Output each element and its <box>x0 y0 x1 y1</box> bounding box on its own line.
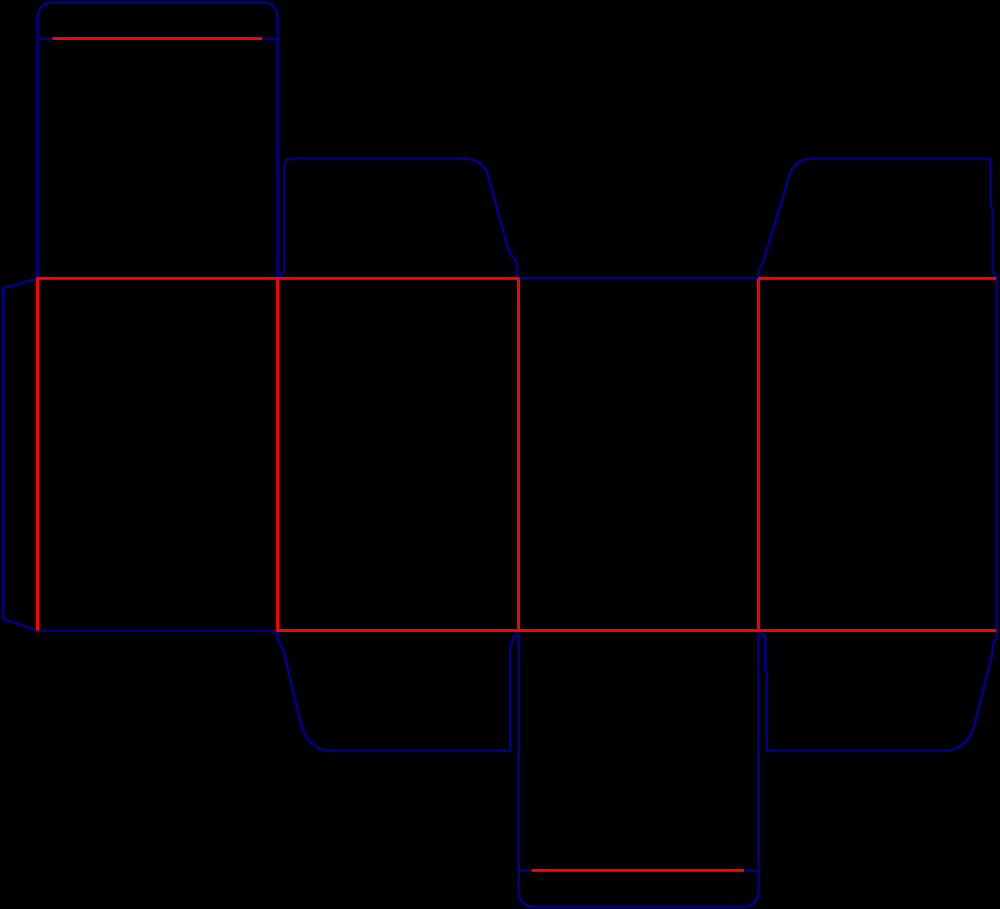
fold crease panel P3 / P4 (red vertical) <box>757 278 760 630</box>
cut line bottom of panel P1 <box>38 629 278 632</box>
bottom crease of panels P2 P3 P4 (red) <box>276 629 996 632</box>
lid cut nick left of tuck crease <box>39 37 53 40</box>
bottom tuck crease (red) in bottom flap <box>532 869 744 872</box>
dust flap above panel P2 (cut outline) <box>278 158 517 277</box>
dust flap below panel P4 (cut outline) <box>759 631 997 750</box>
bottom flap cut nick right of its crease <box>744 869 757 872</box>
bottom flap cut nick left of its crease <box>520 869 532 872</box>
dust flap below panel P2 (cut outline) <box>278 631 519 750</box>
dust flap above panel P4 (cut outline) <box>758 158 996 277</box>
cut line top of panel P3 <box>517 277 759 280</box>
lid cut nick right of tuck crease <box>262 37 277 40</box>
fold crease glue-flap / panel P1 (red vertical) <box>36 278 39 630</box>
top crease of panels P1 P2 (red) <box>36 277 519 280</box>
glue flap left of panel P1 (cut outline) <box>3 278 37 630</box>
bottom tuck flap below panel P3 (cut outline) <box>519 631 759 907</box>
fold crease panel P1 / P2 (red vertical) <box>276 278 279 630</box>
top crease of panel P4 (red) <box>758 277 996 280</box>
tuck flap crease (red) in lid <box>53 37 263 40</box>
right cut edge of panel P4 <box>995 277 998 630</box>
tuck lid flap above panel P1 (cut outline) <box>38 2 278 278</box>
fold crease panel P2 / P3 (red vertical) <box>517 278 520 630</box>
